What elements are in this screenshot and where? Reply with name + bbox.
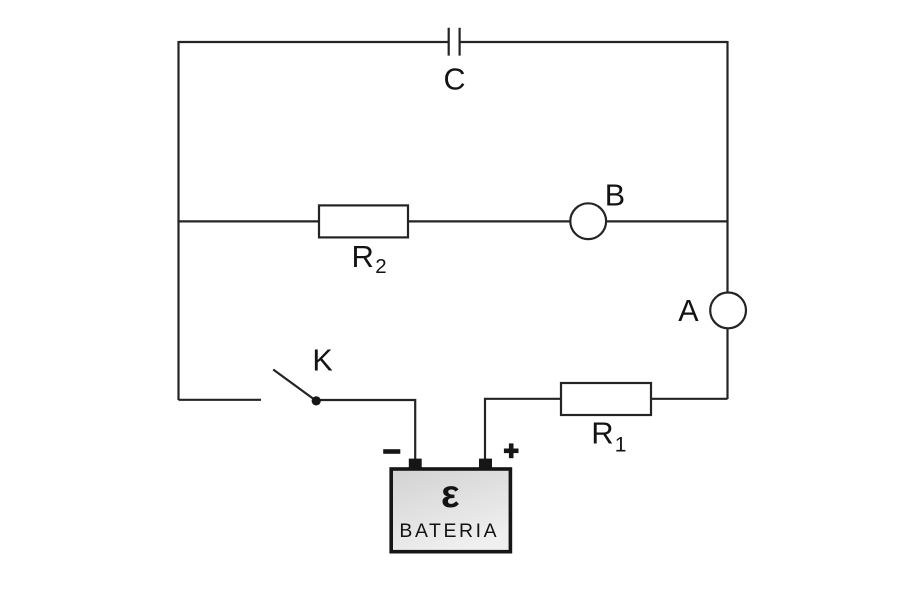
svg-text:1: 1 — [615, 433, 627, 456]
svg-text:2: 2 — [375, 255, 386, 278]
svg-text:K: K — [312, 343, 332, 377]
svg-text:C: C — [443, 62, 465, 96]
svg-text:A: A — [678, 294, 699, 328]
svg-text:BATERIA: BATERIA — [399, 520, 499, 542]
svg-text:B: B — [605, 179, 625, 213]
svg-text:ε: ε — [441, 473, 460, 516]
svg-text:R: R — [352, 239, 374, 274]
svg-text:R: R — [591, 416, 613, 451]
